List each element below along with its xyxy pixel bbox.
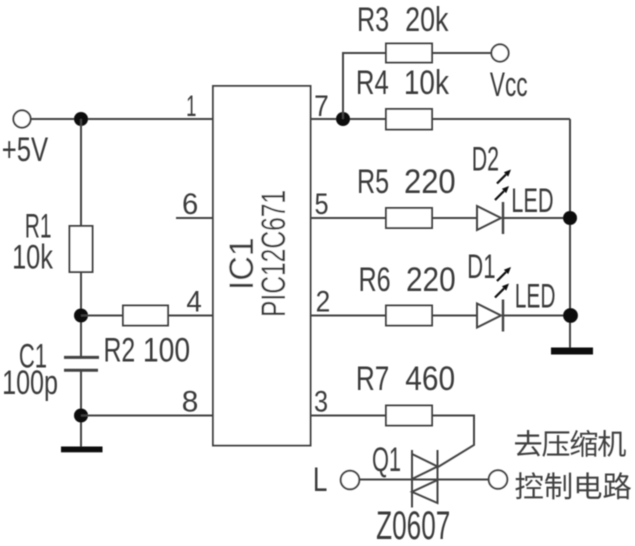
terminal Vcc [490, 44, 528, 104]
wire R4 to right rail [432, 118, 570, 120]
resistor R5 220 [357, 163, 456, 228]
svg-text:R2: R2 [103, 332, 135, 370]
wire pin 5 to R5 [311, 217, 387, 219]
wire R3 branch [343, 53, 386, 119]
wire R1 bottom to C1 [80, 272, 82, 357]
transistor Q1 Z0607 triac [372, 441, 450, 546]
wire D2 to rail [503, 217, 570, 219]
svg-text:D1: D1 [467, 248, 495, 286]
LED D1 [467, 248, 555, 331]
wire R6 to D1 [432, 315, 477, 317]
resistor R4 10k [356, 63, 449, 129]
label 去压缩机 (to compressor) [515, 430, 626, 457]
svg-text:5: 5 [314, 187, 328, 221]
svg-text:10k: 10k [12, 239, 54, 276]
svg-text:L: L [313, 462, 328, 499]
node junction pin7/R3 [336, 112, 350, 126]
svg-text:20k: 20k [405, 1, 449, 39]
svg-text:220: 220 [406, 260, 456, 298]
pin 6 [176, 188, 213, 221]
svg-text:8: 8 [182, 385, 199, 418]
svg-text:D2: D2 [472, 141, 499, 179]
node junction D1/rail/ground [563, 308, 578, 323]
wire R3 to Vcc [432, 52, 491, 54]
resistor R3 20k [357, 1, 449, 62]
svg-text:7: 7 [314, 88, 329, 122]
svg-text:3: 3 [314, 384, 328, 418]
svg-text:Z0607: Z0607 [376, 503, 450, 546]
svg-text:Q1: Q1 [372, 441, 401, 479]
wire pin 2 to R6 [311, 315, 387, 317]
svg-text:4: 4 [186, 286, 201, 319]
terminal to compressor [489, 470, 508, 489]
ground left [61, 447, 103, 453]
svg-text:10k: 10k [404, 63, 449, 101]
terminal +5V [2, 110, 48, 169]
LED D2 [472, 141, 554, 234]
svg-text:1: 1 [186, 90, 196, 124]
node junction C1/pin8/ground [74, 409, 88, 423]
wire +5V to pin 1 [31, 118, 213, 120]
svg-text:R6: R6 [358, 261, 390, 299]
label 控制电路 (control circuit) [515, 472, 631, 499]
wire R5 to D2 [432, 217, 477, 219]
ground right [551, 348, 593, 355]
svg-text:2: 2 [316, 284, 331, 318]
svg-text:R4: R4 [356, 65, 389, 102]
svg-text:100: 100 [143, 331, 190, 369]
terminal L [313, 462, 359, 499]
wire R2 to pin 4 [168, 315, 213, 317]
wire right rail [569, 119, 571, 348]
resistor R6 220 [358, 260, 455, 325]
node junction at +5V rail [74, 112, 88, 126]
IC U1 IC1 PIC12C671 body [213, 86, 311, 446]
wire pin 8 [81, 415, 213, 417]
wire D1 to rail [503, 315, 570, 317]
svg-text:Vcc: Vcc [490, 67, 528, 105]
wire C1 bottom [80, 370, 82, 446]
svg-text:R7: R7 [356, 361, 389, 398]
node junction D2/rail [563, 211, 577, 225]
svg-text:460: 460 [405, 359, 455, 397]
node junction R1/R2/C1 [74, 309, 88, 323]
svg-text:+5V: +5V [2, 132, 48, 169]
svg-text:PIC12C671: PIC12C671 [255, 190, 293, 317]
wire pin 7 [311, 118, 387, 120]
wire pin 3 to R7 [311, 415, 387, 417]
svg-text:100p: 100p [2, 364, 58, 402]
svg-text:6: 6 [182, 188, 198, 221]
resistor R2 100 [103, 306, 190, 370]
resistor R1 10k [12, 206, 92, 276]
wire R7 to triac gate [432, 416, 474, 468]
svg-text:220: 220 [404, 163, 456, 201]
resistor R7 460 [356, 359, 455, 425]
wire to R2 [81, 315, 123, 317]
svg-text:LED: LED [515, 276, 556, 315]
wire triac main [359, 479, 488, 481]
svg-text:LED: LED [511, 182, 553, 220]
svg-text:R5: R5 [357, 163, 389, 201]
wire R1 top [80, 119, 82, 226]
capacitor C1 100p [2, 338, 99, 402]
svg-text:R3: R3 [357, 1, 389, 39]
